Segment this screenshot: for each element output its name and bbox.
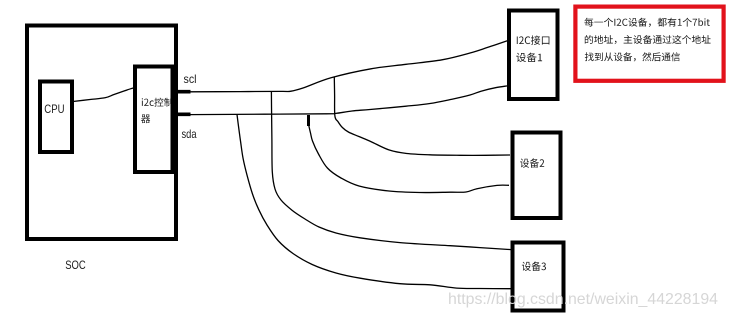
wire: vertical branch at x=334 down to device 2 upper pin (334, 77, 510, 155)
label: device 1 line 1 (I2C接口) (517, 35, 550, 44)
box: i2c controller outline (135, 67, 173, 173)
annotation text line 2 (585, 35, 711, 44)
annotation text line 1 (584, 18, 710, 27)
wire: scl bus line from controller to device 1 (189, 40, 509, 92)
box: CPU (40, 82, 72, 153)
wire: scl bus stub (thick) at controller output (173, 90, 191, 94)
label: device 2 (设备2) (520, 158, 544, 167)
label: i2c controller text line 1 (i2c控制) (142, 98, 173, 107)
svg-text:SOC: SOC (65, 258, 86, 272)
wire: sda branch curve to device 2 lower pin (309, 124, 510, 193)
box: device 3 outline (513, 243, 564, 311)
box: device 1 outline (509, 11, 558, 100)
svg-text:https://blog.csdn.net/weixin_4: https://blog.csdn.net/weixin_44228194 (448, 291, 718, 308)
box fill: device 3 (513, 243, 564, 311)
svg-text:sda: sda (182, 127, 197, 141)
wire: vertical branch at x=271 down to device 3 upper pin (271, 92, 511, 250)
svg-text:CPU: CPU (44, 102, 64, 116)
wire: CPU to i2c controller (73, 88, 133, 102)
annotation text line 3 (585, 52, 680, 61)
box fill: SOC (27, 26, 176, 240)
box fill: device 2 (513, 133, 561, 219)
wire: sda bus line from controller to device 1 (189, 86, 509, 115)
label: device 3 (设备3) (522, 262, 546, 271)
junction: thick start blob of sda branch (307, 115, 310, 126)
box fill: device 1 (509, 11, 558, 100)
wire: sda bus stub (thick) at controller output (173, 113, 191, 117)
label: i2c controller text line 2 (器) (141, 115, 150, 124)
wire: sda branch curve to device 3 lower pin (237, 115, 511, 289)
box: device 2 outline (513, 133, 561, 219)
box: SOC outline (27, 26, 176, 240)
annotation box: red border (575, 7, 723, 81)
label: device 1 line 2 (设备1) (516, 53, 542, 62)
svg-text:scl: scl (184, 72, 197, 86)
